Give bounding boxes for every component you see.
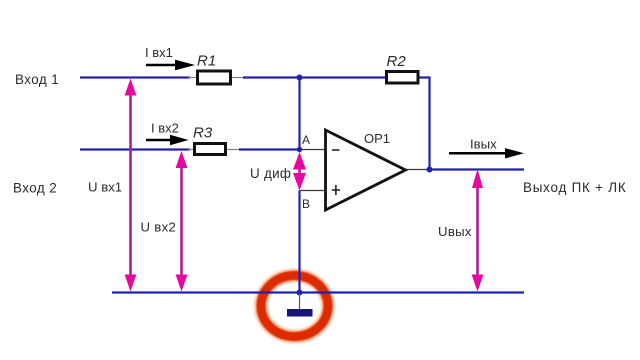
resistor R1 <box>198 71 231 84</box>
svg-text:I вх2: I вх2 <box>151 121 179 136</box>
wire R1 left lead <box>188 77 197 79</box>
arrow Iвых <box>449 148 524 158</box>
svg-text:Iвых: Iвых <box>470 137 497 152</box>
wire input1 left segment <box>80 76 190 78</box>
svg-text:I вх1: I вх1 <box>145 45 173 60</box>
resistor R3 <box>195 144 226 155</box>
op-amp inverting pin mark <box>332 149 340 151</box>
svg-text:B: B <box>302 197 310 211</box>
svg-text:U вх2: U вх2 <box>141 220 177 235</box>
svg-text:Выход ПК + ЛК: Выход ПК + ЛК <box>523 180 626 195</box>
wire stub to inverting input <box>300 149 327 151</box>
wire input2 left segment <box>80 148 190 150</box>
wire R3 to node A <box>239 148 300 150</box>
wire R3 left lead <box>188 149 196 151</box>
arrow U вх2 measure <box>176 151 188 292</box>
wire output line <box>430 168 525 170</box>
wire stub to non-inverting input <box>300 190 327 192</box>
arrow Uвых measure <box>472 169 484 292</box>
arrow U вх1 measure <box>125 79 137 292</box>
wire ground bus bottom line <box>112 291 524 293</box>
arrow U диф measure <box>293 152 306 191</box>
wire R2 right to corner and down to output <box>419 78 430 170</box>
svg-text:Uвых: Uвых <box>438 224 472 239</box>
svg-text:A: A <box>302 133 310 147</box>
svg-text:Вход 1: Вход 1 <box>15 72 59 87</box>
node output junction <box>427 167 433 173</box>
svg-text:U диф: U диф <box>250 166 291 181</box>
svg-text:OP1: OP1 <box>364 131 390 146</box>
annotation red circle highlight <box>261 276 328 337</box>
op-amp U1 body <box>326 130 406 210</box>
resistor R2 <box>387 72 419 84</box>
wire R3 right lead <box>226 149 241 151</box>
wire summing junction vertical from top line to node A <box>298 78 300 150</box>
annotation red circle glow <box>261 276 328 337</box>
svg-text:U вх1: U вх1 <box>88 180 122 195</box>
svg-text:Вход 2: Вход 2 <box>13 181 57 196</box>
op-amp non-inverting pin mark <box>332 185 340 195</box>
wire node B down to ground line <box>298 191 300 293</box>
node ground junction <box>297 290 303 296</box>
arrow I вх2 <box>146 135 189 146</box>
arrow I вх1 <box>146 60 195 71</box>
ground <box>287 293 313 317</box>
svg-text:R3: R3 <box>193 125 213 142</box>
node A junction <box>297 147 302 152</box>
svg-text:R1: R1 <box>197 53 216 70</box>
svg-text:R2: R2 <box>387 53 407 70</box>
wire R1 right lead <box>231 77 245 79</box>
node top junction <box>297 75 303 81</box>
wire op-amp output stub <box>405 169 430 171</box>
wire input1 to R2 segment <box>243 76 386 78</box>
